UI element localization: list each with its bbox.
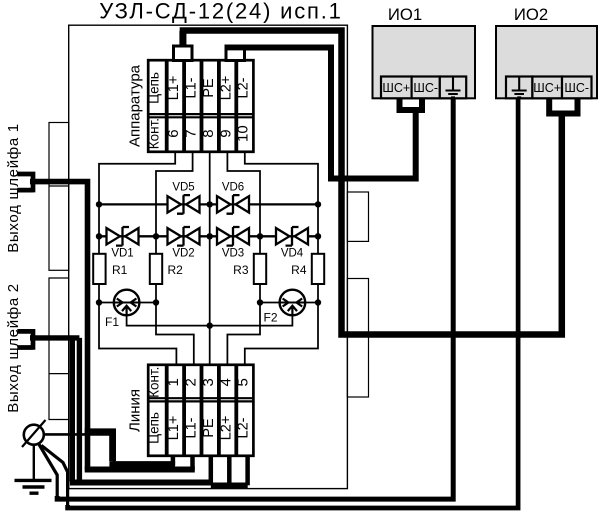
- svg-text:ШС+: ШС+: [382, 81, 410, 95]
- resistor R1: [93, 254, 105, 284]
- wire: ИО1 ШС+/ШС- jumper: [400, 98, 423, 110]
- svg-text:Цепь: Цепь: [147, 72, 162, 104]
- wire: shield diagonal to ИО1 earth line: [38, 443, 57, 499]
- riser to terminal 1: [171, 455, 176, 466]
- diode VD2: [168, 227, 200, 246]
- wire: шлейф2 run to pin 3 (thick): [70, 480, 213, 486]
- svg-text:F2: F2: [264, 311, 278, 325]
- svg-text:VD3: VD3: [222, 248, 244, 260]
- svg-text:VD5: VD5: [172, 182, 194, 194]
- node: lower bus PE: [207, 233, 213, 239]
- wire: F1 centre electrode to PE: [127, 314, 210, 326]
- svg-text:L2-: L2-: [236, 77, 252, 98]
- connector X2 grid: [148, 365, 253, 456]
- connector X1 grid: [148, 60, 253, 152]
- wire: pin 6 to rail L1+: [99, 153, 175, 205]
- svg-text:R3: R3: [233, 263, 249, 277]
- svg-text:PE: PE: [201, 418, 217, 438]
- wire: rail L1+ mid: [99, 204, 176, 364]
- svg-text:Конт.: Конт.: [147, 367, 162, 398]
- svg-text:L1-: L1-: [184, 417, 200, 438]
- screen terminal circle: [24, 425, 44, 445]
- wire: шлейф2 cable from bracket down, two conductors (thick): [30, 336, 79, 482]
- svg-text:L2+: L2+: [218, 76, 234, 101]
- node: lower bus L2-: [315, 233, 321, 239]
- terminal stub above pin 6: [174, 46, 193, 61]
- wire: rail L1- mid: [156, 236, 194, 364]
- node: lower bus L2+: [257, 233, 263, 239]
- ИО2 terminal ШС+: [532, 77, 562, 99]
- wire: шлейф1 cable from bracket down (thick): [30, 182, 88, 470]
- node: F row L1-: [153, 299, 159, 305]
- svg-text:VD1: VD1: [111, 248, 133, 260]
- ИО2 terminal ШС-: [562, 77, 592, 99]
- wire: screen to PE (medium, right of circle): [42, 434, 114, 471]
- riser to terminal 2: [190, 455, 195, 471]
- svg-text:8: 8: [200, 129, 217, 137]
- node: lower bus L1-: [153, 233, 159, 239]
- wire: Аппаратура L2+ cable to ИО1 loop (thick): [228, 48, 416, 179]
- ИО1 terminal ШС+: [381, 77, 412, 99]
- svg-text:VD4: VD4: [281, 248, 304, 260]
- svg-text:5: 5: [235, 378, 252, 386]
- svg-text:L1+: L1+: [166, 416, 182, 441]
- node: F row L1+: [96, 299, 102, 305]
- wire: rail L2- mid: [245, 204, 318, 364]
- svg-text:ШС-: ШС-: [413, 81, 438, 95]
- svg-text:6: 6: [165, 129, 182, 137]
- wire: pin 10 to rail L2-: [245, 153, 318, 205]
- svg-text:L1+: L1+: [166, 76, 182, 101]
- wire: Аппаратура L1+ cable to ИО2 loop (thick): [183, 31, 562, 335]
- svg-text:9: 9: [217, 129, 234, 137]
- node: PE centre junction: [207, 322, 213, 328]
- cable terminal bracket 1: [17, 172, 33, 193]
- svg-text:L2-: L2-: [236, 417, 252, 438]
- diode VD5: [168, 195, 200, 214]
- diode VD4: [276, 227, 308, 246]
- node: lower bus L1+: [96, 233, 102, 239]
- wire: ИО2 earth down (medium): [68, 98, 518, 508]
- svg-text:Линия: Линия: [127, 389, 144, 432]
- arrester F2: [280, 290, 306, 316]
- node: upper bus PE: [207, 201, 213, 207]
- svg-text:ШС+: ШС+: [533, 81, 561, 95]
- wire: shield diagonal to ИО2 earth line: [41, 445, 67, 507]
- upper bus wire: [99, 203, 318, 205]
- wire: ИО2 ШС+/ШС- jumper: [549, 98, 577, 113]
- lower bus wire: [99, 235, 318, 237]
- svg-text:7: 7: [183, 129, 200, 137]
- mounting tab upper-right: [347, 192, 368, 241]
- svg-text:ИО1: ИО1: [388, 5, 422, 24]
- diode VD6: [217, 195, 249, 214]
- wire: pin 9 to rail L2+: [227, 153, 260, 237]
- terminal stub above pin 9: [226, 46, 245, 61]
- wire: F2 centre electrode to PE: [210, 314, 293, 326]
- svg-text:PE: PE: [201, 78, 217, 98]
- wire: circle to earth symbol: [33, 443, 35, 479]
- node: F row L2+: [257, 299, 263, 305]
- resistor R2: [150, 254, 162, 284]
- wire: шлейф1 conductor to pin 2 (thick): [85, 467, 195, 473]
- svg-text:10: 10: [235, 125, 252, 142]
- diode VD1: [107, 227, 139, 246]
- resistor R4: [312, 254, 324, 284]
- svg-text:F1: F1: [105, 315, 119, 329]
- svg-text:L1-: L1-: [184, 77, 200, 98]
- node: upper bus right: [315, 201, 321, 207]
- cable terminal bracket 2: [17, 329, 33, 350]
- arrester F1: [114, 290, 140, 316]
- node: upper bus left: [96, 201, 102, 207]
- svg-text:3: 3: [200, 378, 217, 386]
- riser to terminal 4: [227, 455, 232, 486]
- svg-text:УЗЛ-СД-12(24) исп.1: УЗЛ-СД-12(24) исп.1: [99, 0, 342, 24]
- wire: rail L2+ mid: [227, 236, 260, 364]
- svg-text:ИО2: ИО2: [514, 5, 548, 24]
- riser to terminal 5: [245, 455, 250, 486]
- svg-text:L2+: L2+: [218, 416, 234, 441]
- svg-text:1: 1: [165, 378, 182, 386]
- wire: arrester row left: [99, 302, 156, 304]
- mounting tab upper-left: [49, 123, 69, 271]
- device outline (main box): [69, 25, 348, 488]
- wire: pin 7 to rail L1-: [156, 153, 193, 237]
- wire: arrester row right: [260, 302, 318, 304]
- svg-text:VD2: VD2: [172, 248, 194, 260]
- svg-text:Цепь: Цепь: [147, 412, 162, 444]
- riser to terminal 3: [209, 455, 214, 483]
- mounting tab lower-left: [49, 278, 69, 420]
- diode VD3: [217, 227, 249, 246]
- wire: ИО1 earth down (medium): [57, 98, 453, 499]
- ИО2 terminal earth: [506, 77, 532, 99]
- wire: шлейф1 conductor to pin 1 (thick, jog via screen node): [85, 428, 175, 464]
- mounting tab lower-right: [347, 279, 368, 398]
- svg-text:ШС-: ШС-: [564, 81, 589, 95]
- svg-text:Аппаратура: Аппаратура: [127, 64, 144, 147]
- svg-text:Конт.: Конт.: [147, 118, 162, 149]
- wire: pin 8 PE rail (full vertical): [209, 153, 211, 365]
- svg-text:R4: R4: [291, 263, 307, 277]
- svg-text:R2: R2: [168, 263, 184, 277]
- ИО1 terminal ШС-: [412, 77, 440, 99]
- svg-text:R1: R1: [112, 263, 128, 277]
- earth symbol: [15, 480, 52, 493]
- svg-text:VD6: VD6: [222, 182, 244, 194]
- svg-text:2: 2: [183, 378, 200, 386]
- svg-text:4: 4: [217, 378, 234, 386]
- wire: run to pins 4 and 5 (thick): [211, 483, 248, 489]
- ИО1 terminal earth: [440, 77, 466, 99]
- resistor R3: [254, 254, 266, 284]
- node: F row L2-: [315, 299, 321, 305]
